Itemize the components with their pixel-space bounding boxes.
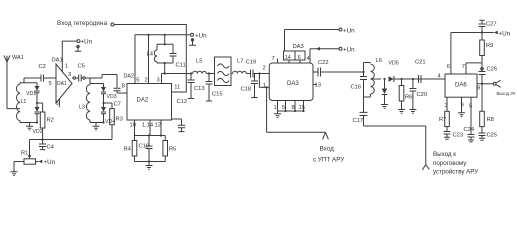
svg-text:C11: C11: [176, 63, 186, 69]
svg-text:L1: L1: [21, 99, 27, 105]
svg-text:R7: R7: [439, 117, 446, 123]
svg-text:Вход гетеродина: Вход гетеродина: [57, 20, 108, 27]
svg-text:L4: L4: [147, 52, 154, 58]
svg-text:15: 15: [299, 105, 305, 111]
svg-text:C19: C19: [246, 60, 257, 66]
svg-text:VD4: VD4: [105, 119, 115, 125]
svg-text:11: 11: [174, 85, 180, 91]
svg-text:R6: R6: [405, 95, 412, 101]
svg-text:1: 1: [263, 83, 266, 89]
svg-text:+Un: +Un: [499, 30, 511, 37]
svg-text:9: 9: [461, 103, 464, 109]
svg-text:R1: R1: [21, 151, 28, 157]
svg-text:Выход к: Выход к: [433, 151, 456, 158]
svg-text:5: 5: [282, 105, 285, 111]
svg-text:5: 5: [49, 81, 52, 87]
svg-text:C24: C24: [464, 127, 475, 133]
svg-text:DA1: DA1: [57, 81, 67, 87]
svg-text:R5: R5: [169, 147, 176, 153]
svg-text:C12: C12: [177, 99, 188, 105]
svg-text:13: 13: [315, 83, 321, 89]
svg-text:DA6: DA6: [455, 83, 467, 89]
svg-text:+Un: +Un: [195, 32, 207, 39]
svg-text:14: 14: [285, 55, 291, 61]
svg-text:VD3: VD3: [107, 94, 117, 100]
svg-text:R9: R9: [486, 43, 493, 49]
svg-text:C7: C7: [114, 102, 121, 108]
svg-text:DA3: DA3: [287, 81, 299, 87]
svg-text:+Un: +Un: [343, 47, 355, 54]
svg-text:с УПТ АРУ: с УПТ АРУ: [313, 156, 345, 163]
svg-text:R3: R3: [116, 117, 123, 123]
svg-text:5: 5: [469, 104, 472, 110]
svg-text:C20: C20: [417, 92, 428, 98]
svg-text:6: 6: [298, 55, 301, 61]
svg-text:C25: C25: [487, 133, 498, 139]
svg-text:1,14: 1,14: [142, 123, 154, 129]
svg-text:Вход: Вход: [320, 145, 335, 152]
svg-text:C23: C23: [453, 133, 464, 139]
svg-text:L7: L7: [237, 59, 243, 65]
svg-text:C5: C5: [78, 64, 85, 70]
svg-text:7: 7: [462, 64, 465, 70]
svg-text:DA2: DA2: [124, 73, 135, 79]
svg-text:8: 8: [122, 84, 125, 90]
svg-text:R2: R2: [47, 118, 54, 124]
svg-text:C2: C2: [39, 64, 46, 70]
svg-text:3: 3: [68, 72, 71, 78]
svg-text:R4: R4: [124, 147, 132, 153]
svg-text:7: 7: [272, 56, 275, 62]
svg-text:C18: C18: [241, 87, 252, 93]
svg-text:C26: C26: [487, 67, 498, 73]
svg-text:1: 1: [274, 105, 277, 111]
svg-text:DA1: DA1: [52, 58, 63, 64]
svg-text:C27: C27: [486, 22, 497, 28]
svg-text:9: 9: [477, 86, 480, 92]
svg-text:3: 3: [157, 78, 160, 84]
svg-text:10: 10: [130, 123, 136, 129]
svg-text:5: 5: [136, 78, 139, 84]
svg-text:C10: C10: [139, 144, 150, 150]
svg-text:C17: C17: [353, 118, 364, 124]
svg-text:пороговому: пороговому: [433, 160, 467, 167]
svg-text:DA2: DA2: [137, 98, 149, 104]
svg-text:2: 2: [145, 78, 148, 84]
svg-text:C15: C15: [212, 92, 223, 98]
svg-text:6: 6: [56, 101, 59, 107]
svg-text:2: 2: [263, 66, 266, 72]
svg-text:устройству АРУ: устройству АРУ: [433, 169, 478, 176]
svg-text:L3: L3: [79, 105, 85, 111]
svg-text:C4: C4: [47, 145, 55, 151]
svg-text:8: 8: [292, 105, 295, 111]
svg-text:6: 6: [447, 64, 450, 70]
svg-text:3: 3: [445, 103, 448, 109]
svg-text:VD2: VD2: [33, 129, 43, 135]
svg-text:VD5: VD5: [389, 61, 399, 67]
svg-text:1: 1: [65, 64, 68, 70]
svg-text:VD1: VD1: [26, 91, 36, 97]
svg-text:Выход ЗЧ: Выход ЗЧ: [497, 91, 516, 96]
svg-text:C16: C16: [351, 85, 362, 91]
svg-text:C21: C21: [415, 60, 426, 66]
svg-text:12: 12: [155, 123, 161, 129]
svg-text:C13: C13: [194, 86, 205, 92]
svg-text:L5: L5: [196, 59, 202, 65]
svg-text:DA3: DA3: [293, 44, 304, 50]
svg-text:+Un: +Un: [343, 27, 355, 34]
svg-text:WA1: WA1: [12, 55, 24, 61]
svg-text:+Un: +Un: [81, 38, 93, 45]
svg-text:L6: L6: [376, 58, 382, 64]
svg-text:+Un: +Un: [44, 159, 56, 166]
svg-text:C22: C22: [318, 60, 329, 66]
svg-text:R8: R8: [487, 117, 494, 123]
